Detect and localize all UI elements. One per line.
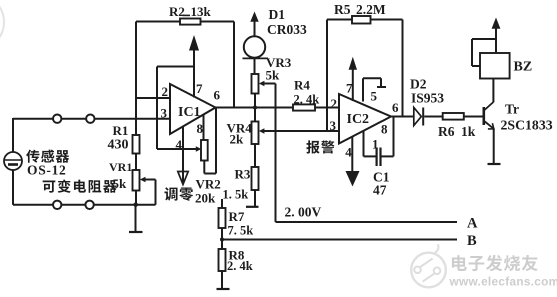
svg-text:7. 5k: 7. 5k (228, 223, 254, 237)
svg-text:2. 4k: 2. 4k (294, 93, 320, 107)
svg-text:2k: 2k (230, 132, 245, 147)
svg-text:8: 8 (197, 121, 204, 136)
svg-text:R3: R3 (235, 167, 251, 182)
svg-text:2SC1833: 2SC1833 (501, 118, 553, 133)
svg-text:D1: D1 (269, 7, 286, 22)
svg-text:2: 2 (331, 96, 338, 111)
svg-text:1: 1 (372, 137, 379, 152)
svg-text:R5: R5 (334, 2, 351, 17)
svg-text:13k: 13k (191, 4, 212, 19)
svg-text:1. 5k: 1. 5k (223, 188, 249, 202)
svg-text:3: 3 (330, 118, 337, 133)
svg-text:4: 4 (176, 137, 183, 152)
svg-text:R2: R2 (169, 4, 185, 19)
svg-text:R7: R7 (229, 209, 245, 224)
svg-text:4: 4 (345, 145, 352, 160)
svg-text:7: 7 (196, 81, 203, 96)
svg-text:CR033: CR033 (267, 22, 307, 37)
svg-text:R4: R4 (294, 78, 310, 93)
svg-text:Tr: Tr (505, 102, 519, 117)
svg-text:IC2: IC2 (347, 112, 370, 127)
svg-text:R1: R1 (113, 123, 129, 138)
svg-text:2. 00V: 2. 00V (285, 205, 322, 220)
svg-text:20k: 20k (195, 191, 216, 206)
svg-text:8: 8 (381, 121, 388, 136)
svg-text:2. 4k: 2. 4k (227, 259, 253, 273)
svg-text:IS953: IS953 (411, 91, 444, 106)
svg-text:VR1: VR1 (109, 160, 132, 174)
svg-text:47: 47 (373, 183, 387, 198)
svg-text:VR2: VR2 (196, 177, 221, 192)
svg-text:2.2M: 2.2M (356, 2, 386, 17)
svg-text:OS-12: OS-12 (27, 163, 67, 178)
svg-text:430: 430 (108, 138, 129, 153)
svg-text:IC1: IC1 (178, 105, 201, 120)
svg-text:A: A (467, 216, 478, 232)
svg-text:3: 3 (161, 106, 168, 121)
svg-text:BZ: BZ (514, 60, 533, 75)
svg-text:6: 6 (392, 100, 399, 115)
svg-text:1k: 1k (461, 124, 476, 139)
svg-text:www.elecfans.com: www.elecfans.com (449, 275, 557, 289)
svg-text:5: 5 (371, 88, 378, 103)
svg-text:7: 7 (346, 81, 353, 96)
svg-text:D2: D2 (410, 77, 427, 92)
svg-text:R6: R6 (438, 124, 455, 139)
svg-text:B: B (467, 233, 477, 249)
svg-text:5k: 5k (266, 68, 281, 83)
svg-text:2: 2 (162, 84, 169, 99)
svg-text:6: 6 (214, 88, 221, 103)
